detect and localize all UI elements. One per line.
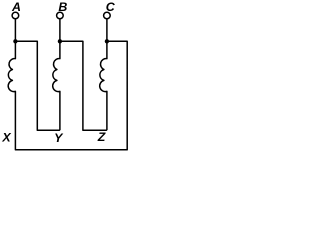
junction node A <box>13 39 17 43</box>
junction node C <box>105 39 109 43</box>
svg-text:B: B <box>58 0 67 14</box>
terminal C circle <box>104 12 111 19</box>
winding B (phase B coil wire down to node Y) <box>53 19 60 131</box>
terminal A circle <box>12 12 19 19</box>
junction node B <box>58 39 62 43</box>
wire: branch from node A down to winding B bottom (Y) <box>15 41 60 130</box>
svg-text:Z: Z <box>97 130 106 144</box>
winding A (phase A coil wire, with outer loop to bottom rail and right edge up to branch C) <box>8 19 127 150</box>
terminal B circle <box>57 12 64 19</box>
wire: branch from node B down to winding C bottom (Z) <box>60 41 107 130</box>
svg-text:X: X <box>1 131 11 145</box>
winding C (phase C coil wire down to node Z) <box>100 19 107 131</box>
svg-text:C: C <box>106 0 116 14</box>
svg-text:A: A <box>11 0 21 14</box>
